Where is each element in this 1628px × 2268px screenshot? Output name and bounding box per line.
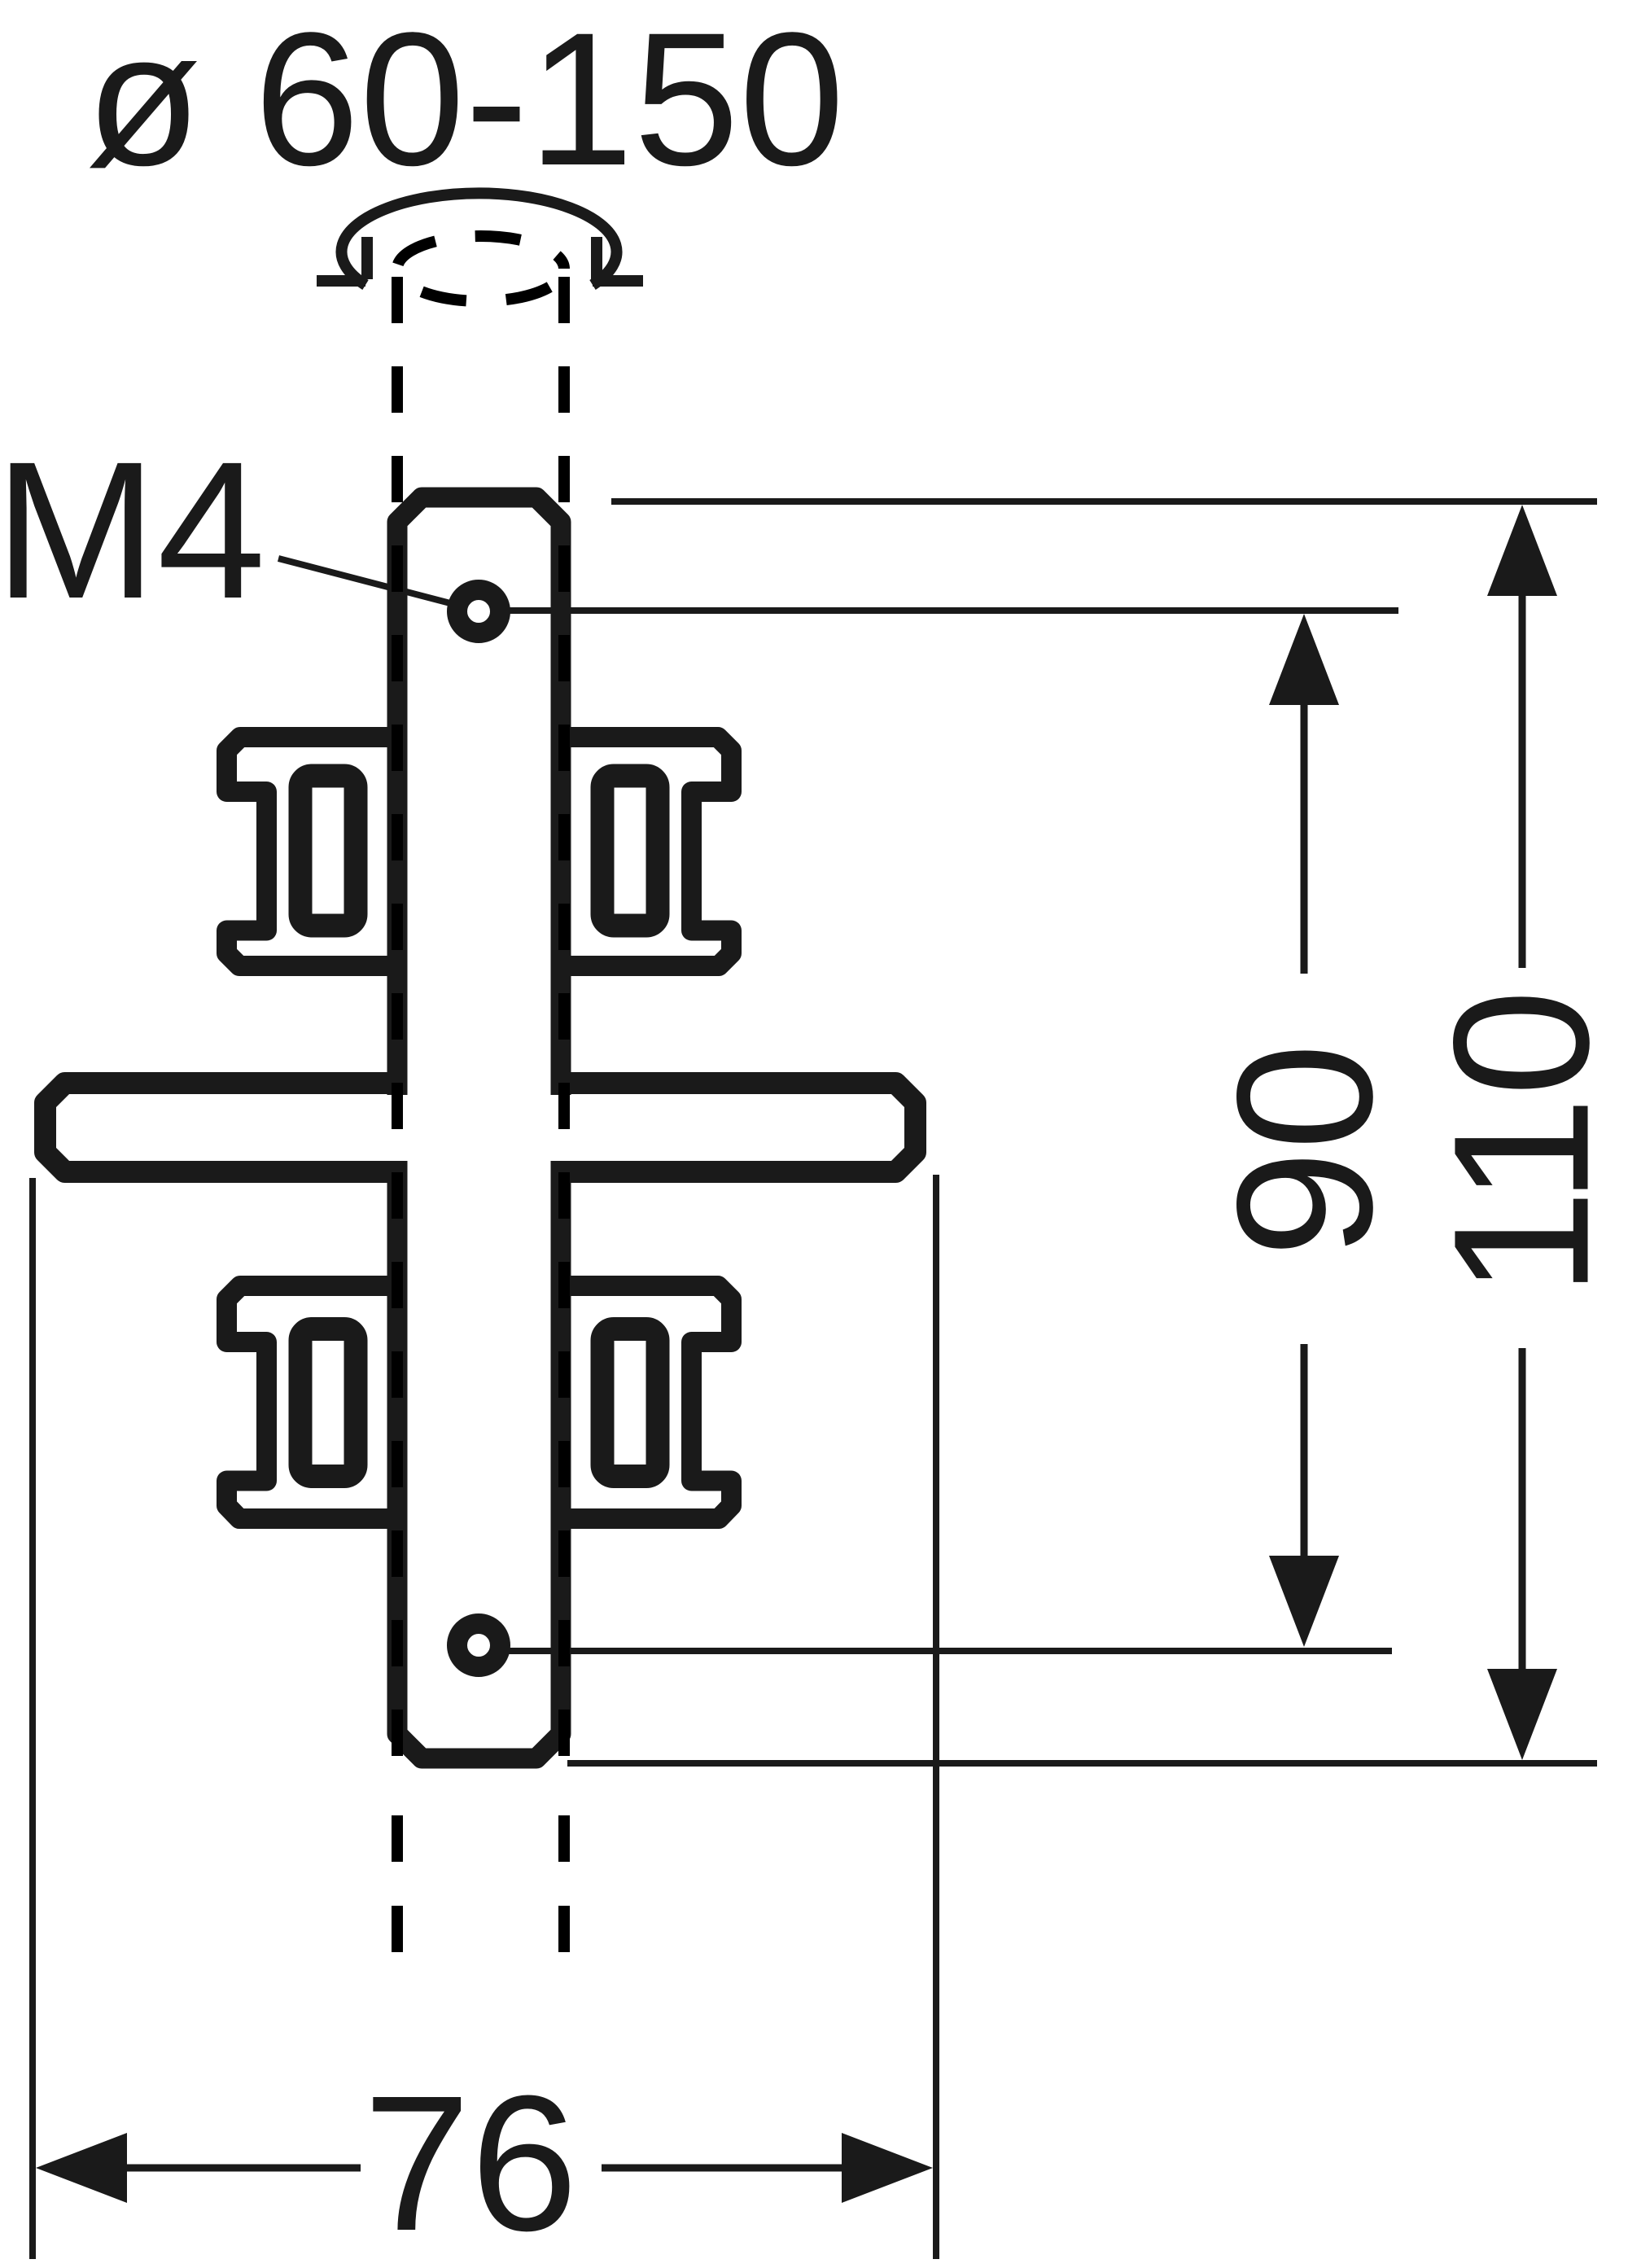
pole dashed right edge — [558, 277, 570, 1758]
svg-text:90: 90 — [1197, 1043, 1413, 1258]
extension line from bar top — [611, 498, 1597, 505]
top screw hole M4 — [457, 590, 501, 633]
arrowhead 90 down — [1269, 1556, 1339, 1647]
svg-text:76: 76 — [363, 2056, 578, 2268]
junction patch right (plate over bar outline) — [548, 1095, 574, 1161]
extension line from bar bottom — [567, 1760, 1597, 1767]
upper-right jaw slot — [602, 776, 658, 926]
extension line 76 left — [29, 1178, 36, 2259]
arrowhead 76 left — [36, 2133, 127, 2203]
svg-text:ø 60-150: ø 60-150 — [85, 0, 845, 205]
dimension shaft 90 — [1301, 705, 1308, 1559]
arrowhead 76 right — [842, 2133, 933, 2203]
rotation arc left arrowhead — [317, 237, 367, 281]
lower-right jaw slot — [602, 1329, 658, 1477]
rotation arc right arrowhead — [593, 237, 643, 281]
horizontal clamp plate — [46, 1084, 916, 1172]
pole dashed right edge below bracket — [558, 1815, 570, 1952]
svg-text:110: 110 — [1414, 989, 1628, 1297]
lower-right clamp jaw profile — [551, 1286, 732, 1519]
vertical bracket bar — [397, 497, 561, 1758]
rotation arc — [342, 193, 617, 285]
lower-left clamp jaw profile — [227, 1286, 408, 1519]
arrowhead 90 up — [1269, 614, 1339, 705]
lower-left jaw slot — [300, 1329, 356, 1477]
pole dashed left edge below bracket — [392, 1815, 403, 1952]
arrowhead 110 down — [1487, 1669, 1557, 1760]
dimension shaft 110 — [1519, 596, 1526, 1672]
upper-left clamp jaw profile — [227, 738, 408, 966]
extension line from bottom hole — [479, 1648, 1392, 1654]
arrowhead 110 up — [1487, 505, 1557, 596]
pole dashed left edge — [392, 277, 403, 1758]
pole dashed top ellipse — [397, 236, 564, 301]
junction patch left (plate over bar outline) — [384, 1095, 410, 1161]
svg-text:M4: M4 — [0, 421, 265, 639]
upper-right clamp jaw profile — [551, 738, 732, 966]
extension line 76 right — [933, 1175, 939, 2259]
extension line from top hole — [479, 607, 1398, 614]
leader line M4 to hole — [278, 558, 472, 609]
bottom screw hole — [457, 1624, 501, 1667]
upper-left jaw slot — [300, 776, 356, 926]
dimension shaft 76 — [127, 2165, 842, 2172]
